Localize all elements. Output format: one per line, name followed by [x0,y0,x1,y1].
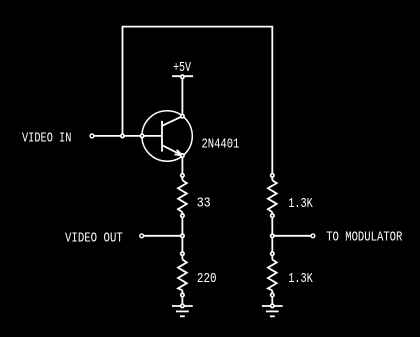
svg-text:33: 33 [197,196,211,212]
svg-text:VIDEO IN: VIDEO IN [22,131,71,147]
svg-text:2N4401: 2N4401 [202,136,240,152]
svg-text:TO MODULATOR: TO MODULATOR [326,230,403,246]
svg-text:1.3K: 1.3K [288,271,313,287]
svg-text:VIDEO OUT: VIDEO OUT [65,231,123,247]
svg-text:+5V: +5V [173,60,191,76]
svg-text:1.3K: 1.3K [288,196,313,212]
svg-text:220: 220 [197,271,217,287]
